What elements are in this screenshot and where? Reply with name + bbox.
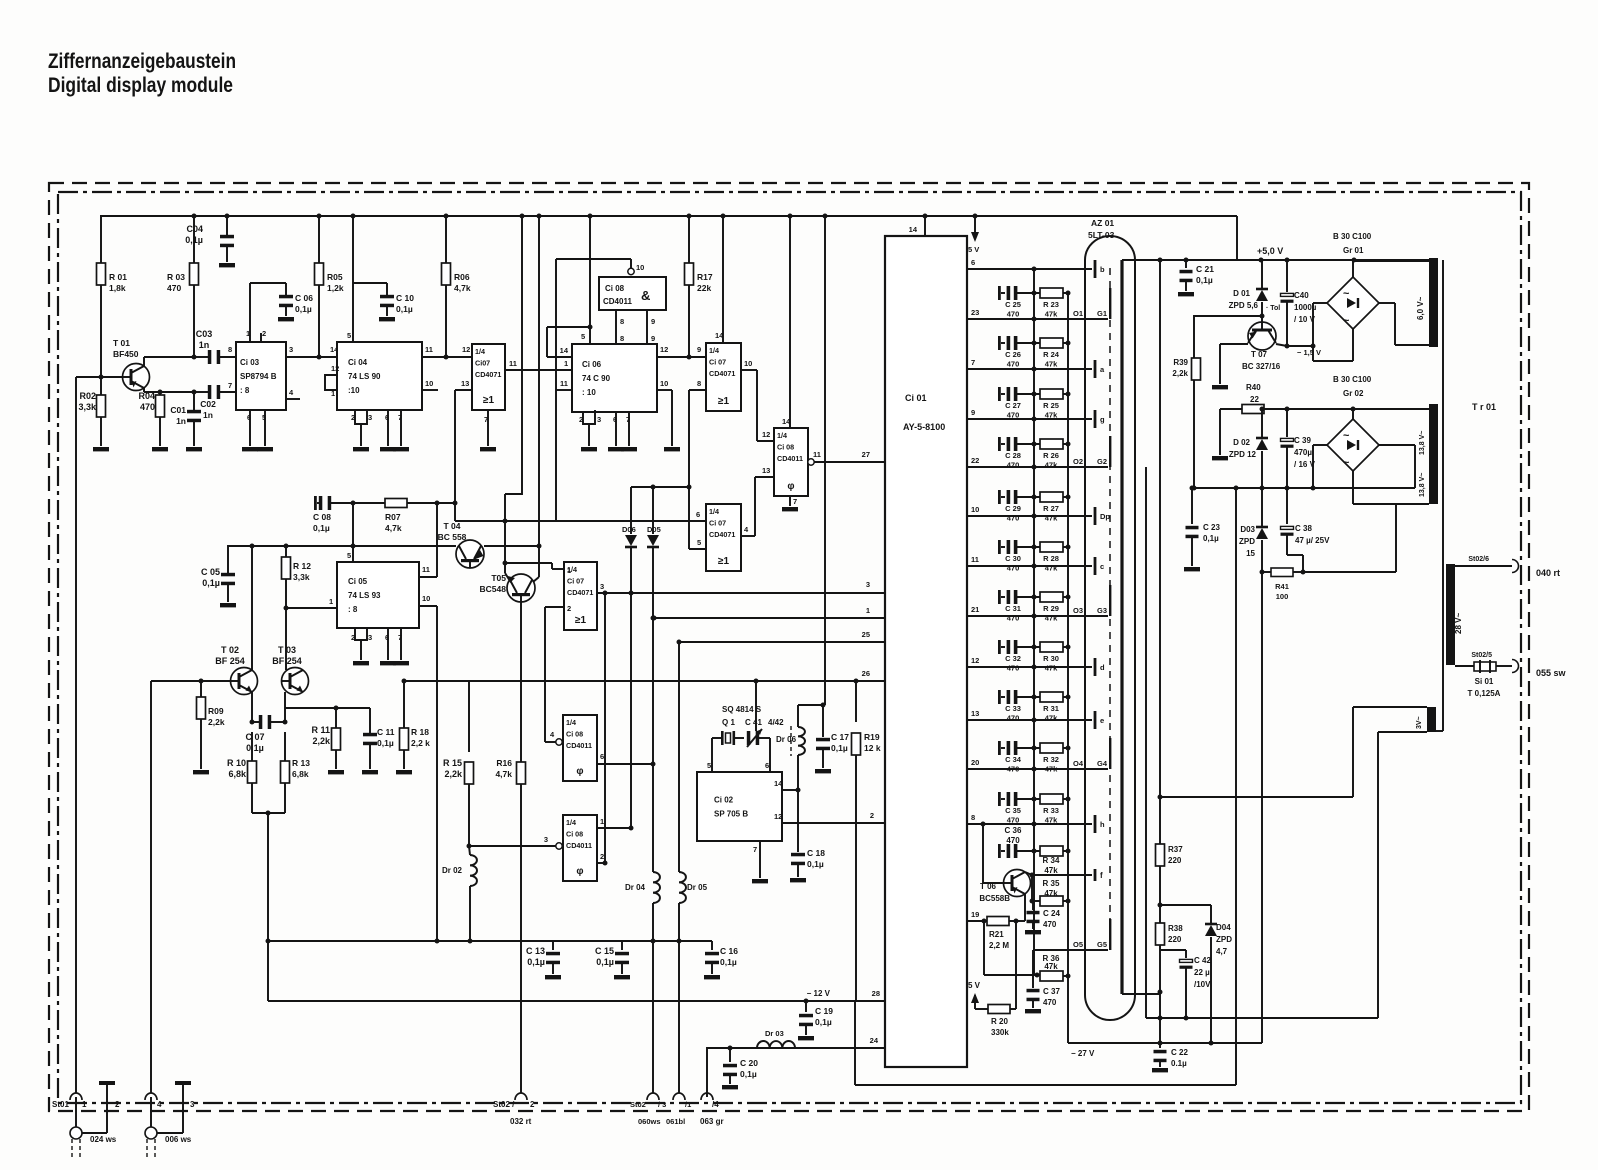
svg-text:9: 9	[651, 317, 655, 326]
svg-text:CD4011: CD4011	[603, 297, 632, 306]
resistor R36	[1035, 954, 1071, 981]
wire T01 emitter	[144, 388, 197, 395]
svg-text:C40: C40	[1294, 291, 1309, 300]
svg-text:11: 11	[560, 379, 568, 388]
svg-text:470: 470	[140, 402, 155, 412]
wire R03-C03 node	[194, 356, 209, 358]
wire 3V top	[1158, 707, 1428, 800]
wire T07 collector -1,5V	[1276, 344, 1321, 358]
svg-text:5 V: 5 V	[968, 245, 979, 254]
svg-text:7: 7	[753, 845, 757, 854]
diode D01 ZPD5.6	[1229, 260, 1281, 322]
resistor R21	[984, 917, 1019, 951]
svg-text:/4: /4	[712, 1100, 719, 1109]
wire Ci08b pin7 gnd	[782, 496, 798, 511]
svg-text:1: 1	[246, 329, 250, 338]
svg-text:4/42: 4/42	[768, 718, 784, 727]
wire Ci06 pin14 loop	[547, 327, 590, 357]
svg-text:060ws: 060ws	[638, 1117, 661, 1126]
svg-text:− 12 V: − 12 V	[807, 989, 831, 998]
inner dash-dot border frame	[58, 192, 1521, 1103]
wire -12V bus	[268, 989, 885, 1004]
chassis pin3	[175, 1081, 195, 1133]
capacitor C20	[722, 1048, 758, 1089]
svg-text:/ 3: / 3	[658, 1100, 666, 1109]
svg-text:3: 3	[600, 582, 604, 591]
transformer winding 28V bar	[1446, 564, 1463, 665]
svg-text:13: 13	[461, 379, 469, 388]
capacitor C04	[185, 216, 235, 267]
wire Ci05 pin5	[347, 545, 353, 562]
wire Gr02 right	[1379, 445, 1415, 488]
wire Ci08b pin11 to Ci01 pin27	[808, 450, 885, 465]
svg-text:R 30: R 30	[1043, 654, 1059, 663]
wire Ci08b pin13	[755, 466, 774, 477]
svg-text:47k: 47k	[1044, 962, 1058, 971]
svg-text:· Tol: · Tol	[1266, 305, 1280, 312]
wire Ci06 pin11 stub	[556, 379, 572, 521]
svg-text:&: &	[641, 288, 650, 303]
wire Ci01 row pin 8	[967, 813, 1105, 833]
svg-text:0,1µ: 0,1µ	[815, 1017, 832, 1027]
svg-text:/1: /1	[685, 1100, 691, 1109]
svg-text:C 25: C 25	[1005, 300, 1021, 309]
capacitor C39 470u	[1281, 409, 1316, 491]
display tube AZ01 5LT-03 outline	[1085, 218, 1135, 1020]
svg-text:C 33: C 33	[1005, 704, 1021, 713]
svg-text:C 32: C 32	[1005, 654, 1021, 663]
wire +5V rail	[1122, 259, 1429, 261]
svg-text:T 07: T 07	[1251, 350, 1268, 359]
svg-text:C 28: C 28	[1005, 451, 1021, 460]
svg-text:C 36: C 36	[1005, 826, 1022, 835]
wire quartz to Ci02	[707, 738, 770, 772]
svg-text:O2: O2	[1073, 457, 1083, 466]
svg-text:Dr 06: Dr 06	[776, 735, 797, 744]
svg-text:St02 /: St02 /	[493, 1100, 515, 1109]
svg-text:100: 100	[1276, 592, 1289, 601]
wire Ci06 grounds	[579, 410, 637, 451]
svg-text:G1: G1	[1097, 309, 1107, 318]
label Tr01	[1472, 402, 1496, 412]
resistor R04	[138, 391, 168, 451]
svg-text:Dr 02: Dr 02	[442, 866, 463, 875]
wire Gr01 top	[1353, 261, 1429, 277]
svg-text:T r 01: T r 01	[1472, 402, 1496, 412]
svg-text:220: 220	[1168, 856, 1182, 865]
resistor R11	[311, 708, 344, 774]
label SQ4814S	[722, 705, 784, 727]
svg-text:3V~: 3V~	[1416, 716, 1423, 729]
resistor R19	[852, 681, 881, 1001]
svg-text:0,1µ: 0,1µ	[807, 859, 824, 869]
capacitor C16	[704, 941, 738, 979]
svg-text:Si 01: Si 01	[1475, 677, 1494, 686]
svg-text:1,8k: 1,8k	[109, 283, 126, 293]
svg-text:470µ: 470µ	[1294, 448, 1312, 457]
svg-text:11: 11	[425, 345, 433, 354]
svg-text:47k: 47k	[1044, 889, 1058, 898]
label B30C100 Gr01	[1333, 232, 1372, 255]
svg-text:0,1µ: 0,1µ	[527, 957, 545, 967]
svg-text:f: f	[1100, 871, 1103, 880]
wire Ci02 pin12 row2	[774, 811, 885, 823]
svg-text:6: 6	[385, 413, 389, 422]
svg-text:T 01: T 01	[113, 338, 130, 348]
resistor R02	[78, 377, 109, 451]
svg-text:b: b	[1100, 265, 1105, 274]
wire ladder stub bus	[1033, 269, 1035, 976]
svg-text:470: 470	[1007, 360, 1020, 369]
outer dashed border frame	[49, 183, 1529, 1111]
svg-text:R 32: R 32	[1043, 755, 1059, 764]
svg-text:6,0 V~: 6,0 V~	[1416, 296, 1425, 320]
tube grid dashed line	[1109, 268, 1111, 940]
svg-text:2,2k: 2,2k	[444, 769, 463, 779]
svg-text:/10V: /10V	[1194, 980, 1211, 989]
svg-text:BC 558: BC 558	[438, 532, 467, 542]
svg-text:R 26: R 26	[1043, 451, 1059, 460]
svg-text:47k: 47k	[1045, 816, 1058, 825]
svg-text:R 29: R 29	[1043, 604, 1059, 613]
wire dropper x825	[798, 216, 825, 705]
svg-text:6: 6	[613, 415, 617, 424]
svg-text:ZPD 12: ZPD 12	[1229, 450, 1257, 459]
transformer winding 3V bar	[1416, 707, 1436, 732]
wire Gr02 left	[1311, 445, 1328, 491]
svg-text:47k: 47k	[1045, 664, 1058, 673]
svg-text:G3: G3	[1097, 606, 1107, 615]
capacitor C19	[798, 1001, 833, 1040]
wire Ci05 grounds	[351, 628, 409, 665]
svg-text:006 ws: 006 ws	[165, 1135, 192, 1144]
supply arrow 5V b	[968, 981, 988, 1009]
svg-text:0,1µ: 0,1µ	[377, 738, 394, 748]
svg-text:3,3k: 3,3k	[78, 402, 97, 412]
resistor R17	[685, 216, 713, 357]
wire Ci07a pin7 gnd	[480, 410, 496, 451]
svg-text:: 8: : 8	[240, 386, 250, 395]
svg-text:C 37: C 37	[1043, 987, 1060, 996]
svg-text:BC558B: BC558B	[979, 894, 1010, 903]
svg-text:Ci 07: Ci 07	[567, 577, 584, 586]
resistor R20	[988, 1005, 1016, 1038]
resistor R13	[281, 732, 311, 813]
svg-text:5 V: 5 V	[968, 981, 981, 990]
svg-text:C02: C02	[200, 399, 216, 409]
svg-text:AY-5-8100: AY-5-8100	[903, 422, 945, 432]
svg-text:R38: R38	[1168, 924, 1183, 933]
svg-text:13: 13	[762, 466, 770, 475]
svg-text:1: 1	[329, 597, 333, 606]
svg-text:BF 254: BF 254	[272, 656, 302, 666]
gate Ci08a CD4011 NAND	[599, 277, 666, 310]
svg-text:g: g	[1100, 415, 1105, 424]
wire primary rail	[1442, 260, 1444, 731]
IC Ci03 SP8794B	[236, 342, 286, 410]
svg-text:St02: St02	[630, 1100, 646, 1109]
svg-text:C01: C01	[170, 405, 186, 415]
resistor R16	[495, 602, 525, 1097]
svg-text:47k: 47k	[1045, 564, 1058, 573]
wire Ci06 pin10 gnd	[657, 379, 680, 451]
wire Ci03 pin1 C06 branch	[246, 283, 286, 342]
svg-text:74 LS 93: 74 LS 93	[348, 591, 381, 600]
gate Ci08c CD4011	[563, 715, 597, 781]
svg-text:: 10: : 10	[582, 388, 596, 397]
transistor T07 BC327/16	[1242, 322, 1281, 371]
svg-text:C 23: C 23	[1203, 523, 1220, 532]
svg-text:5: 5	[347, 331, 351, 340]
svg-text:R40: R40	[1246, 383, 1261, 392]
wire 3V bottom	[1378, 732, 1427, 1018]
svg-text:47k: 47k	[1045, 765, 1058, 774]
wire tube G-line x1146	[1145, 467, 1147, 1018]
svg-text:2,2k: 2,2k	[208, 717, 225, 727]
node bus junctions	[192, 214, 928, 219]
svg-text:C 11: C 11	[377, 727, 395, 737]
svg-text:470: 470	[1007, 816, 1020, 825]
svg-text:C 21: C 21	[1196, 264, 1214, 274]
svg-text:R 01: R 01	[109, 272, 127, 282]
svg-text:5: 5	[347, 551, 351, 560]
svg-text:C 22: C 22	[1171, 1048, 1188, 1057]
svg-text:Ci07: Ci07	[475, 359, 490, 368]
svg-text:C03: C03	[196, 329, 213, 339]
label +5,0V	[1257, 246, 1283, 256]
svg-text:12: 12	[660, 345, 668, 354]
diode D06	[622, 487, 637, 831]
capacitor C 31 / resistor R 29	[998, 590, 1071, 623]
capacitor C 27 / resistor R 25	[998, 387, 1071, 420]
capacitor C 29 / resistor R 27	[998, 490, 1071, 523]
capacitor C21	[1178, 260, 1214, 296]
svg-text:D06: D06	[622, 525, 636, 534]
svg-text:− 27 V: − 27 V	[1071, 1049, 1095, 1058]
svg-text:φ: φ	[787, 481, 794, 492]
wire Ci04 pin10 stub	[422, 379, 438, 390]
svg-text:19: 19	[971, 910, 979, 919]
svg-text:B 30 C100: B 30 C100	[1333, 375, 1372, 384]
svg-text:R 13: R 13	[292, 758, 310, 768]
svg-text:1: 1	[331, 389, 335, 398]
wire Ci01 row pin 13	[967, 709, 1104, 729]
resistor R18	[396, 681, 430, 774]
svg-text:3: 3	[597, 415, 601, 424]
IC Ci05 74LS93	[337, 562, 419, 628]
capacitor C36	[981, 822, 1041, 859]
svg-text:13,8 V~: 13,8 V~	[1419, 431, 1426, 455]
wire Ci01 row pin 10	[967, 505, 1110, 525]
wire R41 out	[1303, 504, 1396, 572]
svg-text:470: 470	[1007, 310, 1020, 319]
svg-text:ZPD: ZPD	[1216, 935, 1232, 944]
svg-text:063 gr: 063 gr	[700, 1117, 724, 1126]
resistor R10	[227, 732, 257, 813]
svg-text:R37: R37	[1168, 845, 1183, 854]
svg-text:C 13: C 13	[526, 946, 545, 956]
svg-text:330k: 330k	[991, 1028, 1009, 1037]
svg-text:470: 470	[1007, 765, 1020, 774]
svg-text:R 23: R 23	[1043, 300, 1059, 309]
svg-text:T 0,125A: T 0,125A	[1468, 689, 1501, 698]
wire D03 down	[1261, 572, 1263, 1043]
svg-text:0,1µ: 0,1µ	[396, 304, 413, 314]
svg-text:470: 470	[1007, 564, 1020, 573]
svg-text:R02: R02	[79, 391, 96, 401]
inductor Dr06	[776, 705, 805, 793]
svg-text:ZPD: ZPD	[1239, 537, 1255, 546]
svg-text:470: 470	[1007, 461, 1020, 470]
wire D-diode feeder	[631, 485, 692, 490]
connector St01 pin4	[145, 1093, 162, 1109]
capacitor C24	[1025, 901, 1060, 934]
svg-text:8: 8	[620, 334, 624, 343]
svg-text:R19: R19	[864, 732, 880, 742]
capacitor C06	[278, 293, 313, 321]
resistor R41	[1260, 568, 1306, 601]
wire Ci07b pin10	[741, 359, 757, 441]
svg-text:Ci 08: Ci 08	[566, 730, 583, 739]
svg-text:R21: R21	[989, 930, 1004, 939]
svg-text:h: h	[1100, 820, 1105, 829]
svg-text:C 31: C 31	[1005, 604, 1021, 613]
wire -27V bus	[1068, 1041, 1262, 1059]
svg-text:Ziffernanzeigebaustein: Ziffernanzeigebaustein	[48, 50, 236, 73]
svg-text:ZPD 5,6: ZPD 5,6	[1229, 301, 1259, 310]
svg-text:BF 254: BF 254	[215, 656, 245, 666]
svg-text:C 17: C 17	[831, 732, 849, 742]
wire dropper x522 jog	[505, 216, 522, 573]
svg-text:5LT-03: 5LT-03	[1088, 230, 1115, 240]
svg-text:25: 25	[862, 630, 870, 639]
svg-text:14: 14	[560, 346, 569, 355]
resistor R40	[1212, 383, 1429, 460]
label B30C100 Gr02	[1333, 375, 1372, 398]
svg-text:0,1µ: 0,1µ	[831, 743, 848, 753]
svg-text:470: 470	[1006, 836, 1020, 845]
wire row pin25	[677, 630, 886, 645]
svg-text:BF450: BF450	[113, 349, 139, 359]
svg-text:7: 7	[228, 381, 232, 390]
svg-text:5: 5	[697, 538, 701, 547]
capacitor C 32 / resistor R 30	[998, 640, 1071, 673]
capacitor C05	[201, 545, 236, 607]
svg-text:220: 220	[1168, 935, 1182, 944]
svg-text:47k: 47k	[1045, 461, 1058, 470]
svg-text:O3: O3	[1073, 606, 1083, 615]
chassis pin2	[99, 1081, 120, 1133]
svg-text:C 41: C 41	[745, 718, 762, 727]
wire Ci08b pin12	[757, 430, 774, 441]
wire Ci06 pin12 to Ci07b pin9	[657, 345, 706, 360]
svg-text:2: 2	[579, 415, 583, 424]
svg-text:74 LS 90: 74 LS 90	[348, 372, 381, 381]
connector St02/2	[493, 1093, 535, 1126]
wire Gr02 bottom	[1353, 471, 1429, 504]
wire Ci04 pin11 to Ci07 pin12	[422, 345, 472, 360]
svg-text:R 10: R 10	[227, 758, 246, 768]
wire Ci08d pin3	[469, 835, 562, 849]
svg-text:Dr 03: Dr 03	[765, 1029, 784, 1038]
capacitor C18	[790, 790, 825, 882]
transistor T06 BC558B	[979, 824, 1030, 903]
svg-text:470: 470	[1007, 411, 1020, 420]
svg-text:Ci 05: Ci 05	[348, 577, 368, 586]
svg-text:23: 23	[971, 308, 979, 317]
svg-text:R17: R17	[697, 272, 713, 282]
connector St02/1	[666, 1093, 691, 1126]
svg-text:Ci 07: Ci 07	[709, 519, 726, 528]
svg-text:040 rt: 040 rt	[1536, 568, 1560, 578]
svg-text:4,7k: 4,7k	[495, 769, 512, 779]
svg-text:6: 6	[600, 752, 604, 761]
svg-text:28 V~: 28 V~	[1454, 613, 1463, 634]
capacitor C42	[1160, 950, 1211, 1018]
svg-text:C 06: C 06	[295, 293, 313, 303]
wire D04 top	[1158, 903, 1212, 908]
connector St02/4	[700, 1093, 724, 1126]
capacitor C37	[1025, 976, 1060, 1013]
fuse Si01	[1455, 660, 1512, 698]
svg-text:C 10: C 10	[396, 293, 414, 303]
svg-text:22k: 22k	[697, 283, 711, 293]
wire Ci01 row pin 11	[967, 555, 1104, 575]
svg-text:1/4: 1/4	[709, 346, 719, 355]
wire Ci07c pin2	[545, 604, 571, 742]
capacitor C07	[245, 692, 287, 753]
svg-text:1n: 1n	[203, 410, 213, 420]
svg-text:2: 2	[870, 811, 874, 820]
svg-text:12: 12	[971, 656, 979, 665]
wire row pin26	[402, 669, 886, 684]
transistor T01 BF450	[113, 338, 150, 391]
svg-text:C 16: C 16	[720, 946, 738, 956]
svg-text:C04: C04	[186, 224, 203, 234]
svg-text:4,7k: 4,7k	[454, 283, 471, 293]
svg-text:47k: 47k	[1045, 614, 1058, 623]
svg-text:6,8k: 6,8k	[292, 769, 309, 779]
trim capacitor C41	[747, 729, 770, 747]
svg-text:14: 14	[774, 779, 783, 788]
svg-text:C 38: C 38	[1295, 524, 1312, 533]
svg-text:SP8794 B: SP8794 B	[240, 372, 277, 381]
svg-text:1n: 1n	[199, 340, 210, 350]
svg-text:2,2 M: 2,2 M	[989, 941, 1009, 950]
svg-text:1: 1	[564, 359, 568, 368]
svg-text:C 39: C 39	[1294, 436, 1311, 445]
wire R10R13 join	[252, 811, 285, 1002]
resistor R07	[385, 499, 458, 534]
svg-text:C 24: C 24	[1043, 909, 1060, 918]
wire Gr01 bottom	[1313, 329, 1353, 361]
transformer winding 6V bar	[1416, 258, 1438, 347]
wire row 521 to gate pin6	[455, 503, 706, 524]
wire nand feedback	[556, 259, 631, 390]
wire T01 collector	[144, 355, 197, 367]
svg-text:d: d	[1100, 663, 1105, 672]
svg-text:7: 7	[398, 413, 402, 422]
svg-text:R 28: R 28	[1043, 554, 1059, 563]
svg-text:C 07: C 07	[245, 732, 264, 742]
wire Ci03 pin4 stub	[286, 388, 300, 399]
svg-text:6: 6	[247, 413, 251, 422]
svg-text:R 11: R 11	[311, 725, 330, 735]
wire top supply bus	[100, 216, 1237, 260]
svg-text:R 24: R 24	[1043, 350, 1060, 359]
gate Ci07c CD4071	[564, 562, 597, 630]
svg-text:47 µ/ 25V: 47 µ/ 25V	[1295, 536, 1330, 545]
